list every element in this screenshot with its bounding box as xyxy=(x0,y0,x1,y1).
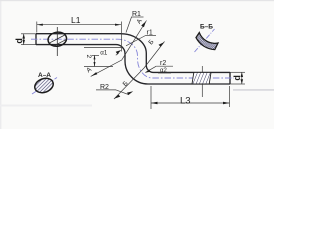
dimension L1 arrow left xyxy=(37,24,43,26)
section Б-Б hatched curved band xyxy=(196,33,218,50)
svg-text:d: d xyxy=(14,38,24,44)
r2 leader arrowhead xyxy=(145,70,151,73)
section A-A hatched ellipse xyxy=(33,76,56,95)
angle alpha1 reference line under tube xyxy=(84,46,121,48)
angle alpha1 arrowhead at vertex xyxy=(116,50,122,54)
cut plane trace on bottom tube xyxy=(201,66,203,97)
section A-A centerline (blue dash-dot) xyxy=(32,78,57,95)
reference line for offset dimension xyxy=(84,66,113,68)
superimposed circular section on left tube xyxy=(47,31,68,48)
leader line for R2 xyxy=(116,90,129,95)
tube inner contour (bottom edge, bend 1 inner arc, bend 2 outer arc, bottom tube bottom edge) xyxy=(36,45,230,84)
svg-text:2: 2 xyxy=(85,55,92,59)
svg-text:α2: α2 xyxy=(160,68,167,74)
dimension L3 arrow left xyxy=(151,102,158,104)
R2 leader arrowhead xyxy=(127,91,133,95)
svg-text:d: d xyxy=(232,75,242,81)
svg-text:R1: R1 xyxy=(132,11,141,18)
leader line for r2 xyxy=(146,66,157,72)
section A arrow lower end xyxy=(91,72,97,76)
underline shelf for R1 xyxy=(131,16,144,18)
offset dimension line vertical xyxy=(94,55,96,66)
dimension L3 extension and dimension lines xyxy=(151,86,230,109)
section A arrow upper end xyxy=(141,21,146,27)
section Б-Б bent cutting line through bend 2 xyxy=(114,42,165,100)
svg-text:r2: r2 xyxy=(160,60,166,67)
svg-text:Б–Б: Б–Б xyxy=(200,24,213,31)
cut plane trace on left straight tube xyxy=(56,27,58,56)
dimension d left: extension ticks and dimension line xyxy=(21,34,36,45)
underline shelf for R2 xyxy=(96,89,116,91)
dimension d right arrow down xyxy=(241,79,244,84)
svg-text:R2: R2 xyxy=(100,84,109,91)
tube outer contour (top edge, bend 1 outer arc, bend 2 inner arc, bottom tube top edge) xyxy=(36,34,230,73)
tube left end face xyxy=(35,34,37,45)
angle alpha1 dimension arc xyxy=(116,53,119,55)
section Б arrow upper end xyxy=(159,42,165,46)
svg-text:L3: L3 xyxy=(180,95,191,106)
leader line for r1 xyxy=(126,36,146,46)
dimension L1 extension and dimension lines xyxy=(37,22,122,52)
section A-A bent cutting line through bend 1 xyxy=(91,21,147,77)
dimension L1 arrow right xyxy=(115,24,121,26)
superimposed hatched section on bottom tube xyxy=(192,72,211,84)
underline shelf for alpha2 xyxy=(158,72,171,74)
offset dimension arrow down xyxy=(94,62,96,67)
svg-text:α1: α1 xyxy=(100,49,108,56)
section Б arrow lower end xyxy=(114,95,120,99)
dimension d left arrow up xyxy=(22,34,25,39)
svg-text:r1: r1 xyxy=(147,30,153,37)
underline shelf for r2 xyxy=(156,65,173,67)
offset dimension arrow up xyxy=(94,55,96,59)
dimension L3 arrow right xyxy=(223,102,230,104)
tube right end face xyxy=(229,72,231,84)
dimension d right: extension ticks and dimension line xyxy=(230,72,245,84)
leader line for R1 xyxy=(126,17,132,33)
underline shelf for r1 xyxy=(146,35,157,37)
svg-text:L1: L1 xyxy=(71,15,81,25)
section Б-Б centerline (blue dash-dot) xyxy=(195,29,215,52)
dimension d right arrow up xyxy=(241,72,244,77)
angle alpha1 dimension line left stub xyxy=(92,54,99,56)
dimension d left arrow down xyxy=(22,40,25,45)
tube centerline (blue dash-dot axis) xyxy=(31,39,234,78)
